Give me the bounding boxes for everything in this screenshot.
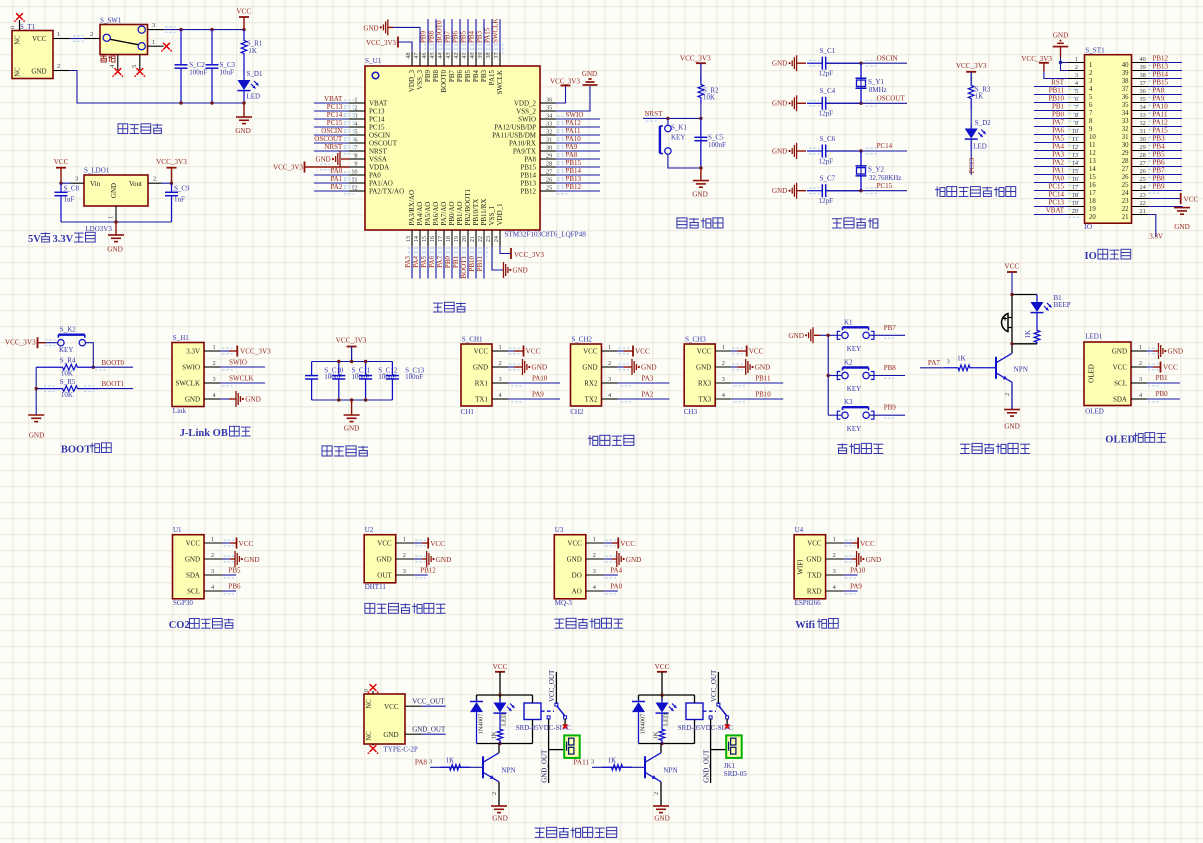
svg-text:S_LDO1: S_LDO1 [84, 167, 110, 175]
svg-text:PB5: PB5 [464, 70, 472, 83]
svg-text:PB9: PB9 [424, 70, 432, 83]
svg-text:PB4: PB4 [472, 70, 480, 83]
svg-text:33: 33 [546, 121, 552, 128]
svg-text:3: 3 [75, 176, 78, 183]
svg-text:PB3: PB3 [1153, 134, 1166, 142]
svg-text:GND: GND [1168, 348, 1184, 356]
svg-text:PB7: PB7 [884, 324, 897, 332]
svg-text:9: 9 [1089, 126, 1093, 133]
svg-text:PC15: PC15 [877, 182, 893, 190]
svg-text:44: 44 [437, 52, 444, 59]
svg-text:VCC: VCC [186, 539, 201, 547]
svg-text:CH3: CH3 [684, 408, 698, 416]
svg-text:PB12: PB12 [566, 183, 582, 191]
svg-text:VDD_3: VDD_3 [408, 70, 416, 93]
svg-text:GND: GND [29, 432, 45, 440]
svg-text:3: 3 [1075, 72, 1078, 79]
svg-text:1: 1 [593, 536, 596, 543]
svg-text:GND: GND [31, 68, 46, 76]
svg-text:AO: AO [572, 587, 582, 595]
svg-text:9: 9 [1075, 120, 1078, 127]
svg-text:7: 7 [1075, 104, 1078, 111]
svg-text:KEY: KEY [847, 385, 861, 393]
svg-text:5: 5 [1089, 94, 1093, 101]
svg-text:GND: GND [107, 246, 123, 254]
svg-text:VCC: VCC [697, 347, 712, 355]
svg-text:26: 26 [546, 177, 552, 184]
svg-text:37: 37 [493, 53, 500, 59]
svg-text:PC13: PC13 [968, 157, 976, 173]
svg-text:47: 47 [413, 53, 420, 59]
svg-text:8: 8 [1075, 112, 1078, 119]
svg-text:32.768KHz: 32.768KHz [869, 174, 901, 182]
svg-text:TX3: TX3 [698, 395, 711, 403]
svg-text:PA15: PA15 [1153, 126, 1169, 134]
svg-text:PB12: PB12 [1153, 54, 1169, 62]
svg-text:12pF: 12pF [819, 70, 834, 78]
svg-text:GND: GND [1004, 422, 1020, 430]
svg-text:NC: NC [366, 699, 373, 709]
svg-text:KEY: KEY [847, 345, 861, 353]
svg-text:PB3: PB3 [480, 70, 488, 83]
svg-text:PA10: PA10 [1153, 102, 1169, 110]
svg-text:1uF: 1uF [64, 196, 75, 204]
svg-text:SWCLK: SWCLK [492, 19, 500, 43]
svg-text:PC13: PC13 [327, 103, 343, 111]
svg-text:PB9: PB9 [884, 404, 897, 412]
svg-text:1: 1 [354, 97, 357, 104]
svg-text:36: 36 [1122, 94, 1129, 101]
svg-text:2: 2 [213, 360, 216, 367]
svg-text:2: 2 [833, 552, 836, 559]
svg-text:VCC_3V3: VCC_3V3 [273, 164, 303, 172]
svg-text:SCL: SCL [187, 587, 200, 595]
svg-text:VCC: VCC [620, 540, 635, 548]
svg-text:VCC_OUT: VCC_OUT [710, 669, 718, 702]
svg-text:MQ-3: MQ-3 [555, 599, 573, 607]
svg-text:NRST: NRST [369, 147, 388, 155]
svg-text:NPN: NPN [663, 767, 678, 775]
svg-text:VCC: VCC [474, 347, 489, 355]
svg-text:PB10: PB10 [468, 256, 476, 272]
svg-text:5: 5 [131, 65, 138, 68]
svg-text:0: 0 [11, 26, 17, 29]
svg-text:2: 2 [57, 63, 60, 70]
svg-text:SRD-05VDC-SL-C: SRD-05VDC-SL-C [678, 724, 734, 732]
svg-text:2: 2 [90, 31, 93, 38]
svg-text:SWCLK: SWCLK [176, 379, 201, 387]
svg-text:S_H1: S_H1 [173, 334, 189, 342]
svg-text:RX3: RX3 [698, 379, 712, 387]
svg-text:PB13: PB13 [566, 175, 582, 183]
svg-text:PA4: PA4 [412, 256, 420, 268]
svg-text:22: 22 [477, 236, 484, 242]
svg-text:PA15: PA15 [488, 70, 496, 86]
svg-text:24: 24 [1140, 184, 1147, 191]
svg-text:GND_OUT: GND_OUT [702, 749, 710, 783]
svg-text:GND: GND [654, 815, 670, 823]
svg-text:GND: GND [806, 555, 821, 563]
svg-text:IO: IO [1085, 251, 1097, 262]
svg-text:PB11/RX: PB11/RX [480, 199, 488, 226]
svg-text:4: 4 [1089, 86, 1093, 93]
svg-text:KEY: KEY [59, 346, 73, 354]
svg-text:15: 15 [1089, 174, 1096, 181]
svg-text:34: 34 [1122, 110, 1129, 117]
svg-text:33: 33 [1122, 118, 1129, 125]
svg-text:PB3: PB3 [476, 30, 484, 43]
svg-text:10K: 10K [61, 391, 73, 399]
svg-text:1K: 1K [652, 731, 659, 739]
svg-text:S_C4: S_C4 [820, 87, 836, 95]
svg-text:7: 7 [1089, 110, 1093, 117]
svg-text:GND_OUT: GND_OUT [412, 726, 446, 734]
svg-text:VCC_3V3: VCC_3V3 [5, 339, 36, 347]
svg-text:PA11: PA11 [1153, 110, 1169, 118]
svg-text:PC15: PC15 [327, 119, 343, 127]
svg-text:37: 37 [1122, 86, 1129, 93]
svg-text:K1: K1 [844, 318, 853, 326]
svg-text:PA8: PA8 [524, 155, 536, 163]
svg-text:26: 26 [1122, 174, 1129, 181]
svg-text:1: 1 [211, 536, 214, 543]
svg-text:3: 3 [591, 759, 594, 766]
svg-text:1: 1 [57, 31, 60, 38]
svg-text:2: 2 [499, 360, 502, 367]
svg-text:29: 29 [1122, 150, 1129, 157]
svg-text:PA10: PA10 [532, 375, 548, 383]
svg-text:VSS_2: VSS_2 [516, 107, 536, 115]
svg-text:38: 38 [1140, 72, 1146, 79]
svg-text:GND: GND [316, 156, 331, 164]
svg-text:PB11: PB11 [476, 256, 484, 272]
svg-text:VCC: VCC [54, 158, 69, 166]
svg-text:PB10/TX: PB10/TX [472, 199, 480, 226]
svg-text:S_R5: S_R5 [60, 378, 76, 386]
svg-text:PA7: PA7 [436, 256, 444, 268]
svg-text:VBAT: VBAT [369, 99, 388, 107]
svg-text:PA5: PA5 [1052, 134, 1064, 142]
svg-text:PB11: PB11 [1049, 86, 1065, 94]
svg-text:PA0: PA0 [330, 167, 342, 175]
svg-text:GND: GND [383, 731, 398, 739]
svg-text:3: 3 [429, 759, 432, 766]
svg-text:OSCIN: OSCIN [321, 127, 342, 135]
svg-text:KEY: KEY [847, 425, 861, 433]
svg-text:24: 24 [493, 235, 500, 242]
svg-text:U2: U2 [365, 526, 374, 534]
svg-text:K2: K2 [844, 359, 853, 367]
svg-text:34: 34 [546, 113, 553, 120]
svg-text:BOOT: BOOT [61, 445, 91, 456]
svg-text:22: 22 [1122, 206, 1129, 213]
svg-text:BEEP: BEEP [1054, 301, 1071, 309]
svg-text:23: 23 [485, 236, 492, 242]
svg-text:GND: GND [377, 555, 392, 563]
svg-text:SCL: SCL [1114, 379, 1127, 387]
svg-text:PA3/RX/AO: PA3/RX/AO [408, 190, 416, 226]
svg-text:VCC: VCC [749, 348, 764, 356]
svg-text:100nF: 100nF [405, 373, 423, 381]
svg-text:6: 6 [1075, 96, 1078, 103]
svg-text:PA6: PA6 [428, 256, 436, 268]
svg-text:PB10: PB10 [1048, 94, 1064, 102]
svg-text:BOOT1: BOOT1 [102, 380, 125, 388]
svg-text:S_R4: S_R4 [60, 357, 76, 365]
svg-text:2: 2 [722, 360, 725, 367]
svg-text:LED: LED [662, 713, 669, 726]
svg-text:30: 30 [1122, 142, 1129, 149]
svg-text:PB8: PB8 [884, 364, 897, 372]
svg-text:24: 24 [1122, 190, 1129, 197]
svg-text:PB15: PB15 [520, 163, 536, 171]
svg-text:5: 5 [354, 129, 357, 136]
svg-text:PB6: PB6 [1153, 158, 1166, 166]
svg-text:27: 27 [1140, 160, 1146, 167]
svg-text:36: 36 [1140, 88, 1146, 95]
svg-text:BOOT0: BOOT0 [436, 20, 444, 43]
svg-text:PA5/AO: PA5/AO [424, 202, 432, 226]
svg-text:17: 17 [1089, 190, 1096, 197]
svg-text:GND: GND [772, 100, 787, 108]
svg-text:43: 43 [445, 53, 452, 59]
svg-text:2: 2 [1075, 64, 1078, 71]
svg-text:VCC: VCC [1113, 363, 1128, 371]
svg-text:PB8: PB8 [428, 30, 436, 43]
svg-text:46: 46 [421, 53, 428, 59]
svg-text:RX1: RX1 [475, 379, 489, 387]
svg-text:20: 20 [1072, 208, 1078, 215]
svg-text:16: 16 [1072, 176, 1078, 183]
svg-text:Vout: Vout [129, 180, 142, 188]
svg-text:PB0: PB0 [1156, 390, 1169, 398]
svg-text:GND: GND [245, 396, 261, 404]
svg-text:VDD_1: VDD_1 [496, 203, 504, 226]
svg-text:Vin: Vin [90, 180, 101, 188]
svg-text:100nF: 100nF [189, 68, 207, 76]
svg-text:PC15: PC15 [369, 123, 385, 131]
svg-text:PC15: PC15 [1048, 182, 1064, 190]
svg-text:VSS_1: VSS_1 [488, 205, 496, 225]
svg-text:VCC_3V3: VCC_3V3 [956, 62, 987, 70]
svg-text:PA6/AO: PA6/AO [432, 202, 440, 226]
svg-text:PA3: PA3 [1052, 150, 1064, 158]
svg-text:PB14: PB14 [1153, 70, 1169, 78]
svg-text:PB1/AO: PB1/AO [456, 201, 464, 225]
svg-text:31: 31 [1122, 134, 1129, 141]
svg-text:18: 18 [1072, 192, 1078, 199]
svg-text:40: 40 [1122, 62, 1129, 69]
svg-text:PA1/AO: PA1/AO [369, 179, 393, 187]
svg-text:2: 2 [1004, 393, 1011, 396]
svg-text:K3: K3 [844, 398, 853, 406]
svg-text:PA4/AO: PA4/AO [416, 202, 424, 226]
svg-text:15: 15 [421, 236, 428, 242]
svg-text:RXD: RXD [807, 587, 822, 595]
svg-text:VDD_2: VDD_2 [514, 99, 537, 107]
svg-text:21: 21 [469, 236, 476, 242]
svg-text:S_CH3: S_CH3 [685, 336, 706, 344]
svg-text:PA4: PA4 [1052, 142, 1064, 150]
svg-text:S_ST1: S_ST1 [1085, 47, 1105, 55]
svg-text:PA10: PA10 [850, 567, 866, 575]
svg-text:PB1: PB1 [452, 256, 460, 269]
svg-text:3: 3 [608, 376, 611, 383]
svg-text:VCC: VCC [32, 35, 47, 43]
svg-text:VBAT: VBAT [1046, 206, 1065, 214]
svg-text:10K: 10K [703, 94, 715, 102]
svg-text:2: 2 [653, 792, 660, 795]
svg-text:OSCOUT: OSCOUT [877, 95, 906, 103]
svg-text:NC: NC [15, 35, 22, 45]
svg-text:13: 13 [1072, 152, 1078, 159]
svg-text:40: 40 [469, 53, 476, 59]
svg-text:PA9: PA9 [532, 391, 544, 399]
svg-text:GND: GND [772, 60, 787, 68]
svg-text:LDO3V3: LDO3V3 [85, 225, 112, 233]
svg-text:RST: RST [1051, 78, 1065, 86]
svg-text:40: 40 [1140, 56, 1146, 63]
svg-text:3: 3 [213, 376, 216, 383]
svg-text:PA12: PA12 [566, 119, 582, 127]
svg-text:10: 10 [1072, 128, 1078, 135]
svg-text:1K: 1K [608, 757, 617, 765]
svg-text:39: 39 [477, 53, 484, 59]
svg-text:PA7/AO: PA7/AO [440, 202, 448, 226]
svg-text:1: 1 [608, 344, 611, 351]
svg-text:VCC: VCC [526, 348, 541, 356]
svg-text:BOOT0: BOOT0 [102, 359, 125, 367]
svg-text:29: 29 [1140, 144, 1146, 151]
svg-text:VCC_3V3: VCC_3V3 [514, 251, 544, 259]
svg-text:45: 45 [429, 53, 436, 59]
svg-text:VCC: VCC [567, 539, 582, 547]
svg-text:PA11/USB/DM: PA11/USB/DM [492, 131, 537, 139]
svg-text:PA10: PA10 [566, 135, 582, 143]
svg-text:2: 2 [403, 552, 406, 559]
svg-text:6: 6 [1089, 102, 1093, 109]
svg-text:OSCOUT: OSCOUT [314, 135, 343, 143]
svg-text:35: 35 [1140, 96, 1146, 103]
svg-text:TYPE-C-2P: TYPE-C-2P [384, 745, 418, 753]
svg-text:PA10/RX: PA10/RX [509, 139, 536, 147]
svg-text:WIFI: WIFI [797, 559, 805, 575]
svg-text:PA8: PA8 [415, 759, 428, 767]
svg-text:S_CH2: S_CH2 [571, 336, 592, 344]
svg-text:NRST: NRST [644, 110, 663, 118]
svg-text:S_U1: S_U1 [365, 57, 382, 65]
svg-text:VCC_3V3: VCC_3V3 [240, 348, 271, 356]
svg-text:19: 19 [1072, 200, 1078, 207]
svg-text:2: 2 [354, 105, 357, 112]
svg-text:5: 5 [1075, 88, 1078, 95]
svg-text:TX1: TX1 [475, 395, 488, 403]
svg-text:1: 1 [499, 344, 502, 351]
svg-text:VSS_3: VSS_3 [416, 70, 424, 90]
svg-text:10: 10 [1089, 134, 1096, 141]
svg-text:2: 2 [211, 552, 214, 559]
svg-text:VCC: VCC [807, 539, 822, 547]
svg-text:ESP8266: ESP8266 [795, 599, 822, 607]
svg-text:PA8: PA8 [1153, 86, 1165, 94]
svg-text:6: 6 [354, 137, 357, 144]
svg-text:SDA: SDA [1113, 395, 1127, 403]
svg-text:S_C8: S_C8 [64, 185, 80, 193]
svg-text:VCC_3V3: VCC_3V3 [336, 337, 367, 345]
svg-text:39: 39 [1122, 70, 1129, 77]
svg-text:SDA: SDA [186, 571, 200, 579]
svg-text:GND: GND [185, 395, 200, 403]
svg-text:3: 3 [211, 568, 214, 575]
svg-text:NC: NC [366, 731, 373, 741]
svg-text:NC: NC [15, 67, 22, 77]
svg-text:33: 33 [1140, 112, 1146, 119]
svg-text:31: 31 [1140, 128, 1146, 135]
svg-text:48: 48 [405, 53, 412, 59]
svg-text:1K: 1K [957, 354, 966, 362]
svg-text:GND: GND [344, 425, 360, 433]
svg-text:30: 30 [546, 145, 552, 152]
svg-text:VCC: VCC [493, 663, 508, 671]
svg-text:100nF: 100nF [708, 141, 726, 149]
svg-text:13: 13 [405, 236, 412, 242]
svg-text:S_Y2: S_Y2 [868, 165, 884, 173]
svg-text:CH1: CH1 [461, 408, 475, 416]
svg-text:GND: GND [567, 555, 582, 563]
svg-text:S_C9: S_C9 [174, 185, 190, 193]
svg-text:3: 3 [403, 568, 406, 575]
svg-text:PA3: PA3 [642, 375, 654, 383]
svg-text:SWCLK: SWCLK [496, 70, 504, 95]
svg-text:S_C1: S_C1 [820, 47, 836, 55]
svg-text:PB4: PB4 [1153, 142, 1166, 150]
svg-text:PB5: PB5 [460, 30, 468, 43]
svg-text:8: 8 [1089, 118, 1093, 125]
svg-text:PB14: PB14 [566, 167, 582, 175]
svg-text:12pF: 12pF [819, 157, 834, 165]
svg-text:1: 1 [722, 344, 725, 351]
svg-text:PB6: PB6 [229, 583, 242, 591]
svg-text:PB4: PB4 [468, 30, 476, 43]
svg-text:PA4: PA4 [610, 567, 622, 575]
svg-text:GND: GND [235, 127, 251, 135]
svg-text:VCC: VCC [384, 703, 399, 711]
svg-text:3: 3 [722, 376, 725, 383]
svg-text:35: 35 [1122, 102, 1129, 109]
svg-text:39: 39 [1140, 64, 1146, 71]
svg-text:GND: GND [755, 364, 771, 372]
svg-text:SWCLK: SWCLK [229, 375, 254, 383]
svg-text:PB12: PB12 [420, 567, 436, 575]
svg-text:3: 3 [947, 359, 950, 366]
svg-text:10K: 10K [61, 370, 73, 378]
svg-text:OSCIN: OSCIN [877, 54, 898, 62]
svg-text:12: 12 [1072, 144, 1078, 151]
svg-text:PC14: PC14 [1048, 190, 1064, 198]
svg-text:PB8: PB8 [432, 70, 440, 83]
svg-text:12pF: 12pF [819, 110, 834, 118]
svg-text:VCC: VCC [236, 7, 251, 15]
svg-text:Link: Link [173, 407, 187, 415]
svg-text:GND: GND [363, 24, 378, 32]
svg-text:3.3V: 3.3V [186, 347, 200, 355]
svg-text:SWIO: SWIO [182, 363, 200, 371]
svg-text:VCC: VCC [860, 540, 875, 548]
svg-text:DO: DO [572, 571, 582, 579]
svg-text:PB13: PB13 [1153, 62, 1169, 70]
svg-text:5V: 5V [28, 234, 41, 245]
svg-text:32: 32 [1140, 120, 1146, 127]
